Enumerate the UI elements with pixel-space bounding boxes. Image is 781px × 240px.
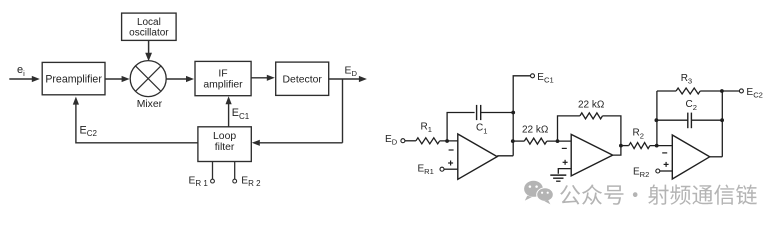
wire E_C2 loop filter to preamplifier (73, 97, 198, 143)
terminal E_R2 input (633, 166, 660, 179)
svg-text:EC2: EC2 (80, 125, 98, 139)
svg-text:C2: C2 (686, 99, 697, 112)
wire E_D to R1 (405, 140, 416, 142)
wire node B to 22k feedback (558, 116, 580, 141)
node U2 output junction (619, 144, 623, 148)
node R3 right junction (720, 89, 724, 93)
input signal label e_i (17, 64, 25, 78)
wire U2 output to R2 (621, 145, 629, 147)
label 22 kOhm series (522, 124, 549, 135)
label E_C2 (80, 125, 98, 139)
wire 22k feedback to U2 output (603, 116, 621, 146)
watermark icon (524, 181, 554, 205)
node detector output junction (342, 79, 344, 143)
svg-text:R2: R2 (633, 128, 644, 141)
ground (550, 175, 566, 181)
terminal E_C2 output (739, 87, 763, 100)
node C1 feedback junction (511, 111, 515, 115)
op-amp U3 (662, 135, 710, 179)
svg-text:Loop: Loop (213, 131, 236, 142)
terminal E_R1 input (418, 164, 445, 177)
wire preamplifier to mixer (105, 76, 130, 82)
label C2 (686, 99, 697, 112)
label R3 (681, 73, 692, 86)
svg-text:Detector: Detector (283, 74, 323, 85)
wire R2 to U3 inverting input (650, 145, 672, 147)
svg-text:ED: ED (345, 66, 358, 79)
terminal E_R1 (211, 162, 215, 184)
op-amp U2 (562, 134, 613, 176)
node C2 right junction (720, 118, 724, 122)
svg-text:ER2: ER2 (633, 166, 649, 179)
svg-text:Local: Local (137, 17, 161, 28)
svg-text:IF: IF (218, 68, 227, 79)
svg-text:C1: C1 (476, 123, 487, 136)
watermark text (560, 184, 757, 204)
wire U1 output (497, 155, 513, 157)
wire node A to C1 (447, 113, 475, 142)
wire to 22k series resistor (513, 140, 524, 142)
wire local oscillator to mixer (145, 40, 152, 61)
wire U1 output riser (513, 76, 530, 156)
svg-text:EC1: EC1 (537, 72, 553, 85)
resistor R2 (629, 143, 650, 149)
wire detector output (329, 76, 367, 82)
resistor 22k series (524, 138, 547, 144)
wire C2 right (691, 119, 722, 121)
capacitor C1 (477, 105, 481, 120)
block Local oscillator (122, 13, 177, 40)
wire U3 output riser (721, 91, 723, 157)
svg-text:ER1: ER1 (418, 164, 434, 177)
svg-text:Mixer: Mixer (137, 99, 163, 110)
block IF amplifier (195, 61, 251, 95)
node B summing junction U2 (556, 139, 560, 143)
block Loop filter (198, 127, 251, 162)
svg-text:ED: ED (385, 134, 398, 147)
svg-text:oscillator: oscillator (129, 28, 169, 39)
capacitor C2 (688, 113, 692, 129)
block Preamplifier (42, 62, 105, 94)
wire C1 to U1 output node (481, 112, 514, 114)
label 22 kOhm feedback (578, 99, 605, 110)
label C1 (476, 123, 487, 136)
node A summing junction U1 (445, 139, 449, 143)
wire R1 to U1 inverting input (440, 140, 458, 142)
wire mixer to IF amplifier (166, 76, 194, 82)
resistor 22k feedback (580, 113, 603, 119)
wire U2 noninverting input to ground (558, 169, 571, 174)
block Detector (276, 62, 329, 95)
wire node C feedback riser (656, 91, 658, 146)
resistor R3 (676, 88, 700, 94)
svg-text:R1: R1 (421, 122, 432, 135)
node C summing junction U3 (655, 144, 659, 148)
svg-text:EC1: EC1 (232, 107, 250, 121)
svg-text:filter: filter (215, 142, 235, 153)
label E_R1 (189, 176, 209, 189)
wire C2 left (657, 119, 688, 121)
wire 22k to U2 inverting input (547, 140, 571, 142)
label R2 (633, 128, 644, 141)
wire U2 output (613, 146, 621, 156)
terminal E_C1 output (531, 72, 554, 85)
label E_C1 (232, 107, 250, 121)
wire input arrow (9, 76, 40, 82)
svg-text:ER 1: ER 1 (189, 176, 209, 189)
svg-text:22 kΩ: 22 kΩ (578, 99, 605, 110)
mixer M1 (130, 61, 166, 97)
wire E_R1 to U1 noninverting input (444, 168, 458, 170)
svg-text:amplifier: amplifier (203, 79, 243, 90)
mixer label (137, 99, 163, 110)
node C2 left junction (655, 118, 659, 122)
op-amp U1 (448, 134, 497, 179)
svg-text:ER 2: ER 2 (241, 176, 261, 189)
label R1 (421, 122, 432, 135)
wire to R3 (657, 90, 676, 92)
svg-text:22 kΩ: 22 kΩ (522, 124, 549, 135)
svg-text:ei: ei (17, 64, 25, 78)
terminal E_R2 (233, 162, 237, 184)
terminal E_D input (385, 134, 405, 147)
wire R3 to output riser (700, 90, 722, 92)
output label E_D (345, 66, 358, 79)
wire IF amplifier to detector (251, 75, 275, 81)
svg-text:R3: R3 (681, 73, 692, 86)
label E_R2 (241, 176, 261, 189)
wire to E_C2 (722, 90, 739, 92)
wire U3 output (710, 156, 723, 158)
resistor R1 (416, 138, 440, 144)
wire E_C1 arrow loop filter to IF amplifier (226, 96, 232, 127)
svg-text:Preamplifier: Preamplifier (45, 73, 102, 85)
wire feedback to loop filter (252, 140, 343, 146)
wire E_R2 to U3 noninverting input (660, 170, 673, 172)
node 22k series junction (511, 139, 515, 143)
svg-text:EC2: EC2 (746, 87, 763, 100)
